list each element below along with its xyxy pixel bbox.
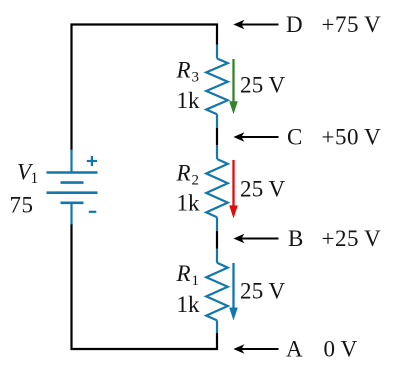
svg-text:1: 1 — [31, 170, 39, 187]
resistor R2 — [206, 145, 228, 231]
node B arrow — [233, 234, 278, 244]
voltage arrow across R2 (red) — [229, 160, 238, 218]
svg-text:A: A — [286, 337, 303, 362]
svg-text:+75 V: +75 V — [322, 12, 382, 37]
svg-text:R: R — [176, 58, 191, 83]
battery plus sign — [87, 156, 97, 166]
svg-text:D: D — [286, 12, 303, 37]
svg-text:25 V: 25 V — [240, 177, 286, 202]
wire: top rail with left and right corners — [72, 25, 218, 151]
node C arrow — [233, 132, 278, 142]
resistor R1 — [206, 249, 228, 334]
svg-text:25 V: 25 V — [240, 279, 286, 304]
battery minus sign — [89, 211, 97, 213]
svg-text:+25 V: +25 V — [322, 226, 382, 251]
wire: bottom rail with left and right corners — [72, 224, 218, 349]
battery V1 — [47, 150, 98, 225]
wire: right branch segment at node C — [216, 128, 218, 145]
svg-text:1k: 1k — [177, 191, 201, 216]
svg-text:3: 3 — [192, 70, 200, 86]
svg-text:25 V: 25 V — [240, 73, 286, 98]
svg-text:1: 1 — [192, 273, 200, 289]
svg-text:B: B — [288, 226, 303, 251]
svg-text:+50 V: +50 V — [322, 125, 382, 150]
svg-text:R: R — [176, 261, 191, 286]
svg-text:0 V: 0 V — [324, 337, 358, 362]
svg-text:C: C — [287, 125, 302, 150]
svg-text:2: 2 — [192, 173, 200, 189]
svg-text:R: R — [176, 161, 191, 186]
svg-text:75: 75 — [10, 193, 34, 218]
voltage arrow across R1 (blue) — [229, 263, 238, 321]
svg-text:1k: 1k — [177, 88, 201, 113]
node D arrow — [233, 20, 278, 30]
node A arrow — [233, 344, 278, 354]
svg-text:1k: 1k — [177, 292, 201, 317]
wire: right branch segment at node B — [216, 231, 218, 249]
resistor R3 — [206, 45, 228, 128]
voltage arrow across R3 (green) — [229, 59, 238, 114]
